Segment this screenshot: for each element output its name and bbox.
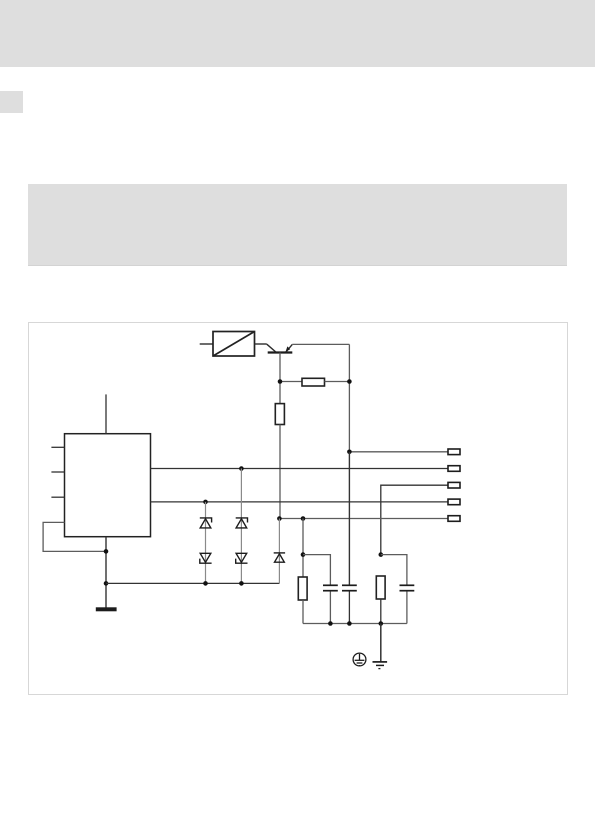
protective earth symbol PE xyxy=(353,653,366,666)
wire Q1 collector down xyxy=(279,353,281,404)
wire IC feedback loop xyxy=(43,522,106,551)
node G xyxy=(104,581,109,586)
wire zener column 1 xyxy=(205,502,207,584)
wire node E down xyxy=(302,519,304,578)
wire zener column 2 xyxy=(240,469,242,584)
wire R4 to bus xyxy=(380,599,382,624)
dc/dc converter U1 xyxy=(213,332,255,357)
note box xyxy=(28,184,567,266)
node D2 junction xyxy=(239,466,244,471)
terminal X4 xyxy=(448,499,460,505)
wire node A to R1 xyxy=(280,381,302,383)
capacitor C2 xyxy=(342,585,357,590)
IC U2 xyxy=(65,434,151,537)
wire top rail down to node B xyxy=(348,344,350,451)
node C xyxy=(277,516,282,521)
wire node I to C3 xyxy=(381,555,407,585)
zener D3 xyxy=(236,518,248,528)
resistor R3 xyxy=(298,577,307,600)
wire IC left pin 1 xyxy=(51,446,64,448)
node H xyxy=(301,552,306,557)
wire node H to C1 xyxy=(303,555,330,585)
schematic frame xyxy=(28,322,568,695)
wire terminal line 5 xyxy=(279,518,448,520)
wire IC top pin xyxy=(105,394,107,433)
chapter tab square xyxy=(0,91,23,113)
wire diode column 3 xyxy=(278,519,280,584)
terminal X1 xyxy=(448,449,460,455)
node E xyxy=(301,516,306,521)
wire bottom rail xyxy=(106,582,279,584)
node K xyxy=(347,621,352,626)
wire Q1 emitter to top rail xyxy=(292,343,349,345)
wire ground bus xyxy=(303,623,407,625)
wire R3 to bus xyxy=(302,600,304,624)
zener D4 xyxy=(236,553,248,563)
node D1b xyxy=(203,581,208,586)
wire IC left pin 3 xyxy=(51,496,64,498)
resistor R2 xyxy=(275,404,284,425)
wire rail to C2 xyxy=(348,452,350,585)
wire U1 base lead xyxy=(255,343,267,345)
wire IC left pin 2 xyxy=(51,471,64,473)
wire C1 to bus xyxy=(329,592,331,624)
wire bus to earth xyxy=(380,624,382,662)
wire terminal line 3 xyxy=(381,485,448,554)
node J xyxy=(328,621,333,626)
node B xyxy=(347,450,352,455)
capacitor C3 xyxy=(400,585,415,590)
transistor Q1 xyxy=(267,344,293,352)
wire terminal line 1 xyxy=(349,451,448,453)
header band xyxy=(0,0,595,67)
zener D2 xyxy=(200,553,212,563)
node D2b xyxy=(239,581,244,586)
terminal X3 xyxy=(448,482,460,488)
ground bar xyxy=(96,607,117,611)
resistor R1 xyxy=(302,378,325,386)
wire terminal line 2 xyxy=(151,468,449,470)
node F xyxy=(104,549,109,554)
diode D5 xyxy=(274,553,285,562)
node A xyxy=(278,379,283,384)
terminal X2 xyxy=(448,466,460,472)
node I xyxy=(379,552,384,557)
node D1 junction xyxy=(203,500,208,505)
terminal X5 xyxy=(448,516,460,522)
capacitor C1 xyxy=(323,585,338,590)
wire R2 down to node C xyxy=(279,425,281,519)
earth ground symbol xyxy=(373,662,388,669)
node A2 xyxy=(347,379,352,384)
wire U1 left lead xyxy=(200,343,213,345)
resistor R4 xyxy=(376,576,385,599)
wire R1 to vertical rail xyxy=(325,381,350,383)
wire terminal line 4 xyxy=(151,501,449,503)
zener D1 xyxy=(200,518,212,528)
wire IC bottom pin to ground xyxy=(105,537,107,608)
wire C3 to bus xyxy=(406,592,408,624)
wire C2 to bus xyxy=(348,592,350,624)
node L xyxy=(379,621,384,626)
